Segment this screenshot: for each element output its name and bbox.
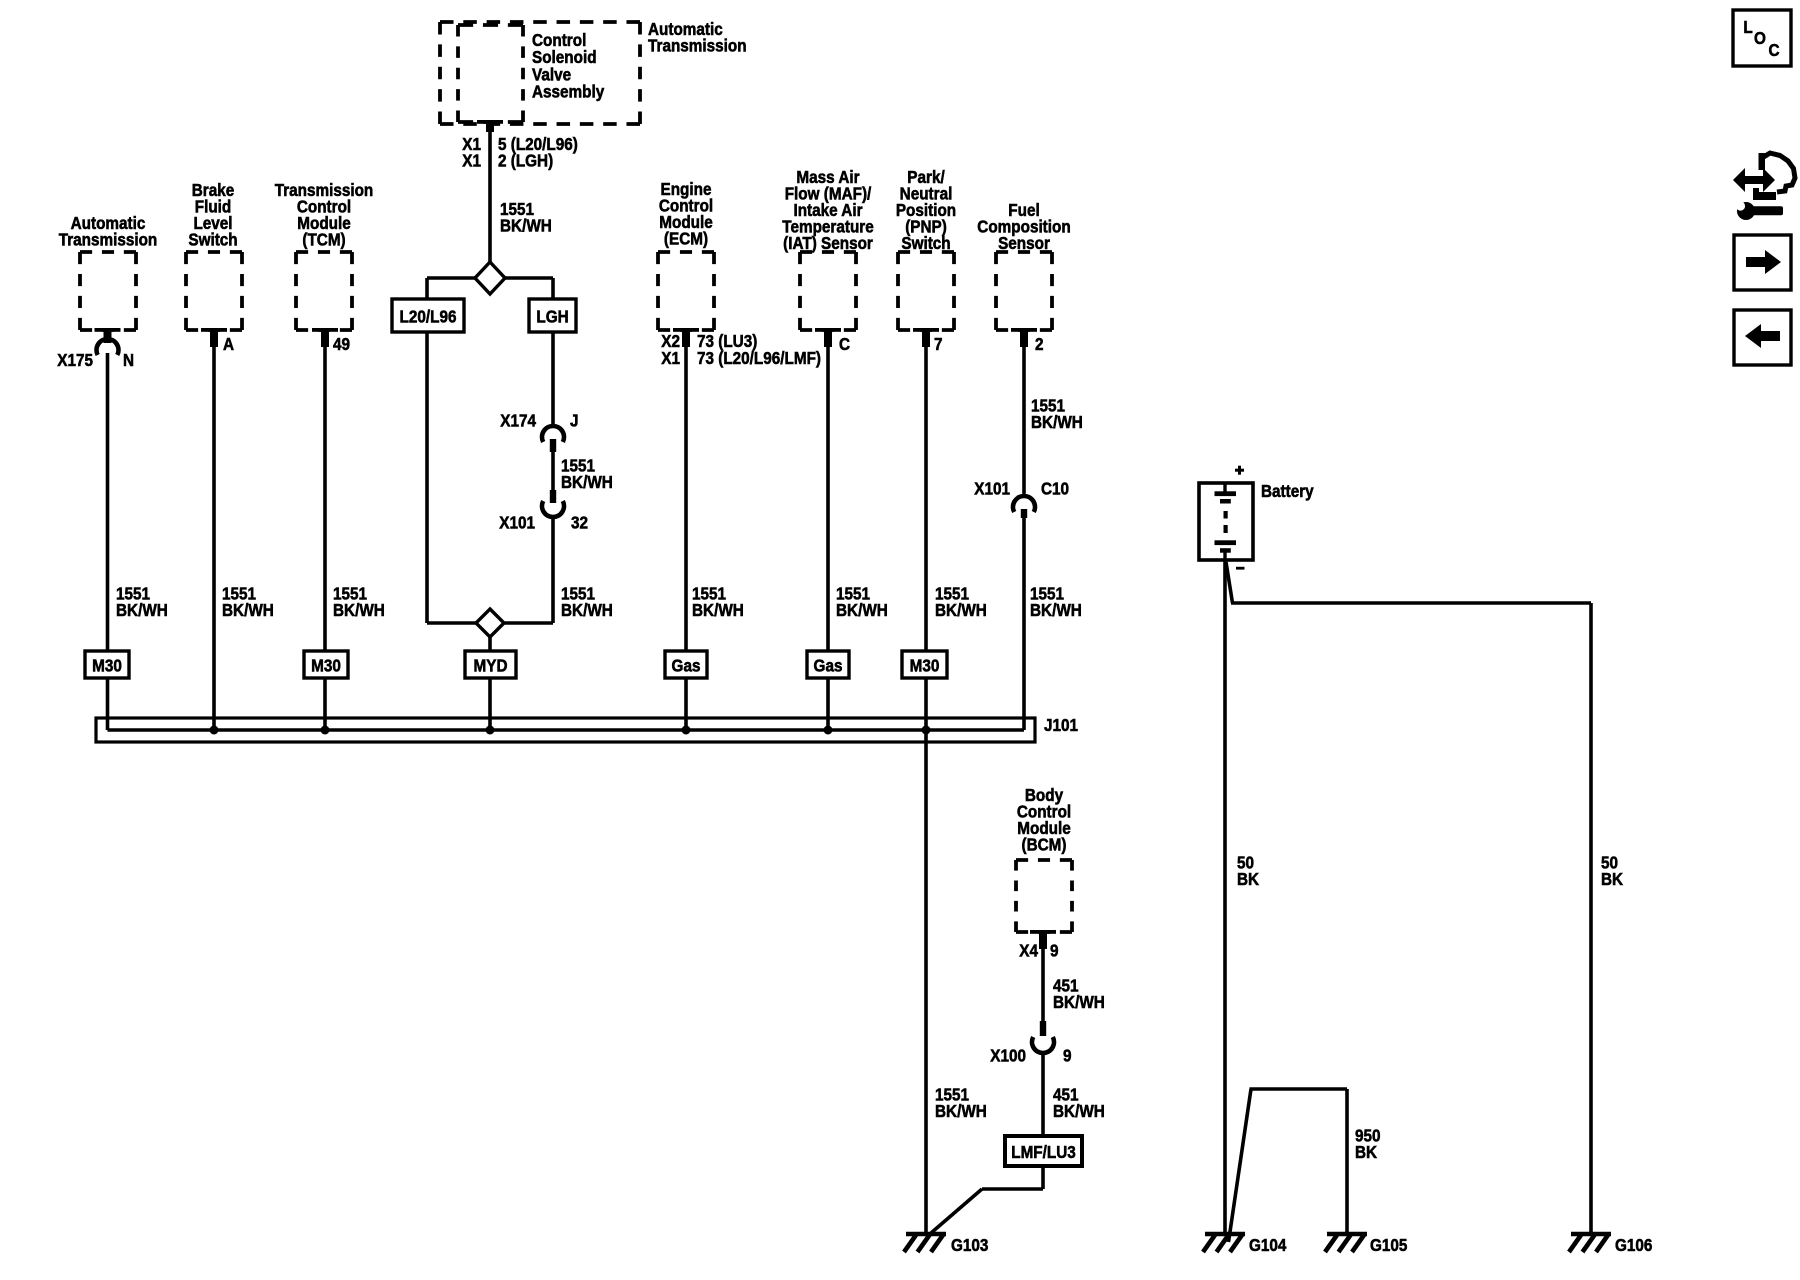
- svg-text:(BCM): (BCM): [1022, 834, 1067, 854]
- svg-text:Assembly: Assembly: [532, 81, 605, 101]
- svg-text:C10: C10: [1041, 478, 1069, 498]
- svg-text:2: 2: [1035, 334, 1044, 354]
- svg-text:9: 9: [1050, 940, 1059, 960]
- svg-text:7: 7: [934, 334, 943, 354]
- svg-text:X101: X101: [499, 512, 535, 532]
- svg-text:BK/WH: BK/WH: [692, 600, 744, 620]
- svg-text:M30: M30: [311, 655, 341, 675]
- svg-text:M30: M30: [92, 655, 122, 675]
- svg-text:G106: G106: [1615, 1235, 1652, 1255]
- svg-text:BK/WH: BK/WH: [1030, 600, 1082, 620]
- svg-text:BK/WH: BK/WH: [935, 1101, 987, 1121]
- svg-text:BK/WH: BK/WH: [1031, 412, 1083, 432]
- svg-text:L20/L96: L20/L96: [400, 306, 457, 326]
- svg-text:BK/WH: BK/WH: [836, 600, 888, 620]
- svg-text:LMF/LU3: LMF/LU3: [1011, 1142, 1076, 1162]
- svg-text:Gas: Gas: [672, 655, 701, 675]
- svg-text:X4: X4: [1019, 940, 1038, 960]
- svg-text:BK: BK: [1355, 1142, 1377, 1162]
- svg-text:Transmission: Transmission: [648, 35, 747, 55]
- svg-text:BK/WH: BK/WH: [1053, 1101, 1105, 1121]
- svg-text:BK/WH: BK/WH: [935, 600, 987, 620]
- svg-text:2 (LGH): 2 (LGH): [498, 150, 553, 170]
- svg-text:C: C: [839, 334, 850, 354]
- svg-text:9: 9: [1063, 1045, 1072, 1065]
- svg-text:A: A: [223, 334, 234, 354]
- svg-text:C: C: [1768, 40, 1779, 60]
- svg-text:L: L: [1743, 17, 1752, 37]
- svg-text:X1: X1: [661, 348, 680, 368]
- svg-text:M30: M30: [910, 655, 940, 675]
- svg-text:BK: BK: [1237, 869, 1259, 889]
- svg-text:Transmission: Transmission: [59, 229, 158, 249]
- svg-text:BK/WH: BK/WH: [500, 215, 552, 235]
- svg-text:X175: X175: [57, 350, 93, 370]
- svg-text:O: O: [1754, 28, 1766, 48]
- svg-text:J: J: [570, 410, 579, 430]
- svg-text:Battery: Battery: [1261, 481, 1314, 501]
- svg-text:BK: BK: [1601, 869, 1623, 889]
- svg-text:32: 32: [571, 512, 588, 532]
- svg-text:(TCM): (TCM): [302, 229, 345, 249]
- svg-text:BK/WH: BK/WH: [333, 600, 385, 620]
- svg-text:73 (L20/L96/LMF): 73 (L20/L96/LMF): [697, 348, 821, 368]
- svg-text:N: N: [123, 350, 134, 370]
- svg-text:Switch: Switch: [188, 229, 237, 249]
- svg-text:X1: X1: [462, 150, 481, 170]
- svg-text:G103: G103: [951, 1235, 988, 1255]
- svg-text:LGH: LGH: [536, 306, 568, 326]
- svg-text:BK/WH: BK/WH: [561, 472, 613, 492]
- svg-text:X174: X174: [500, 410, 536, 430]
- svg-text:G104: G104: [1249, 1235, 1287, 1255]
- svg-text:BK/WH: BK/WH: [561, 600, 613, 620]
- svg-text:X100: X100: [990, 1045, 1026, 1065]
- svg-text:BK/WH: BK/WH: [116, 600, 168, 620]
- svg-text:X101: X101: [974, 478, 1010, 498]
- svg-text:J101: J101: [1044, 715, 1078, 735]
- svg-text:49: 49: [333, 334, 350, 354]
- svg-text:Gas: Gas: [814, 655, 843, 675]
- svg-text:G105: G105: [1370, 1235, 1407, 1255]
- svg-text:MYD: MYD: [474, 655, 508, 675]
- svg-text:(ECM): (ECM): [664, 228, 708, 248]
- svg-text:BK/WH: BK/WH: [1053, 992, 1105, 1012]
- svg-text:BK/WH: BK/WH: [222, 600, 274, 620]
